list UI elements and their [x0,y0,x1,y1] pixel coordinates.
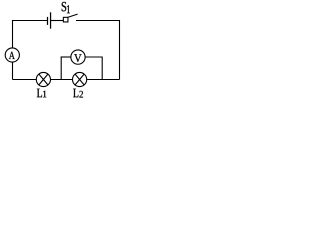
voltmeter branch wire left horizontal [61,56,71,58]
wire left vertical upper (corner to ammeter) [12,20,14,48]
lamp L1 circle [36,72,50,86]
switch S1 contact [63,17,68,22]
glyph A (ammeter) [9,52,15,59]
glyph L (label L1) [37,89,42,98]
glyph 2 (label L2 sub) [79,91,83,98]
wire right side vertical [119,20,121,80]
glyph 1 (label S1 sub) [67,5,70,13]
wire bottom-right (corner to lamp L2) [87,79,120,81]
glyph S (label S1) [62,2,66,11]
glyph 1 (label L1 sub) [43,91,46,98]
lamp L1 cross [39,74,48,85]
wire left vertical lower (ammeter to corner) [12,62,14,79]
glyph L (label L2) [73,89,78,98]
glyph V (voltmeter) [74,54,81,62]
voltmeter branch wire right vertical [101,57,103,80]
lamp L2 circle [73,72,87,86]
wire between lamps L2 to L1 [50,79,72,81]
wire top-left (corner to battery) [13,20,48,22]
voltmeter V circle [71,50,85,64]
wire bottom-left (lamp L1 to corner) [13,79,37,81]
battery B1 long plate [50,12,52,28]
switch S1 lever [68,14,78,17]
voltmeter branch wire left vertical [60,57,62,80]
voltmeter branch wire right horizontal [85,56,103,58]
wire battery to switch [51,20,64,22]
battery B1 short plate [47,17,49,25]
wire switch to top-right corner [76,20,120,22]
lamp L2 cross [75,74,84,85]
ammeter A circle [5,48,19,62]
